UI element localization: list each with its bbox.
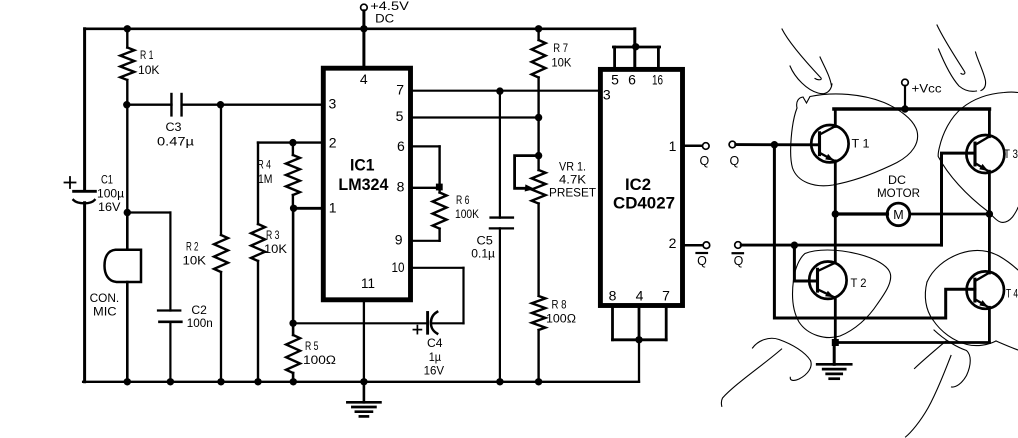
svg-text:3: 3 [603,87,611,103]
svg-text:8: 8 [397,178,405,194]
svg-text:8: 8 [609,288,617,304]
svg-text:DC: DC [888,173,906,187]
svg-text:Q: Q [697,254,707,268]
svg-text:100µ: 100µ [97,187,124,201]
svg-text:7: 7 [396,81,404,97]
svg-text:10K: 10K [551,55,571,69]
svg-text:7: 7 [662,287,670,303]
svg-text:1: 1 [669,138,677,154]
svg-text:5: 5 [396,108,404,124]
svg-text:R 7: R 7 [553,41,568,55]
svg-text:2: 2 [329,135,337,151]
svg-text:100Ω: 100Ω [546,312,576,326]
svg-text:IC1: IC1 [350,156,375,175]
svg-text:100n: 100n [187,316,213,330]
svg-text:6: 6 [628,72,636,88]
svg-text:DC: DC [375,12,394,26]
svg-text:C3: C3 [166,120,182,134]
svg-text:6: 6 [397,138,405,154]
svg-text:0.47µ: 0.47µ [157,135,194,149]
svg-text:T 2: T 2 [851,276,867,290]
svg-text:4.7K: 4.7K [559,173,586,187]
svg-text:100K: 100K [455,207,479,221]
svg-text:Q: Q [734,254,744,268]
svg-text:VR 1.: VR 1. [559,160,586,174]
svg-text:16: 16 [652,72,663,88]
svg-text:16V: 16V [98,200,121,214]
svg-text:R 6: R 6 [456,193,470,207]
svg-text:10K: 10K [264,242,287,256]
svg-text:CD4027: CD4027 [613,194,675,213]
svg-text:T 1: T 1 [852,137,870,151]
svg-text:1µ: 1µ [429,350,441,364]
svg-text:C1: C1 [101,173,113,187]
svg-text:10K: 10K [138,63,160,77]
svg-text:11: 11 [361,275,375,291]
svg-text:100Ω: 100Ω [303,353,336,367]
svg-text:C4: C4 [427,336,443,350]
svg-text:Q: Q [700,154,710,168]
svg-text:LM324: LM324 [338,175,389,194]
svg-text:R 3: R 3 [266,228,280,242]
svg-text:CON.: CON. [90,291,120,305]
svg-text:10: 10 [392,259,405,275]
svg-text:IC2: IC2 [625,175,651,194]
svg-text:M: M [893,208,903,222]
svg-text:R 4: R 4 [258,158,272,172]
svg-text:1: 1 [329,199,337,215]
svg-text:10K: 10K [183,254,207,268]
svg-text:PRESET: PRESET [549,186,597,200]
svg-text:R 1: R 1 [140,48,154,62]
svg-text:T 4: T 4 [1006,287,1018,301]
svg-text:2: 2 [669,235,677,251]
svg-text:MOTOR: MOTOR [877,186,920,200]
svg-text:+Vcc: +Vcc [912,82,942,96]
svg-text:1M: 1M [258,172,273,186]
svg-text:9: 9 [395,231,403,247]
svg-text:Q: Q [730,154,740,168]
svg-text:C5: C5 [477,233,494,247]
svg-text:R 5: R 5 [305,339,319,353]
svg-text:4: 4 [360,71,368,87]
svg-text:3: 3 [329,96,337,112]
svg-text:R 8: R 8 [552,298,567,312]
svg-text:16V: 16V [424,364,445,378]
svg-text:R 2: R 2 [186,240,199,254]
svg-text:C2: C2 [191,303,207,317]
svg-text:4: 4 [636,287,644,303]
svg-text:MIC: MIC [93,305,117,319]
svg-text:T 3: T 3 [1004,147,1018,161]
svg-text:0.1µ: 0.1µ [471,247,495,261]
svg-text:5: 5 [611,72,619,88]
